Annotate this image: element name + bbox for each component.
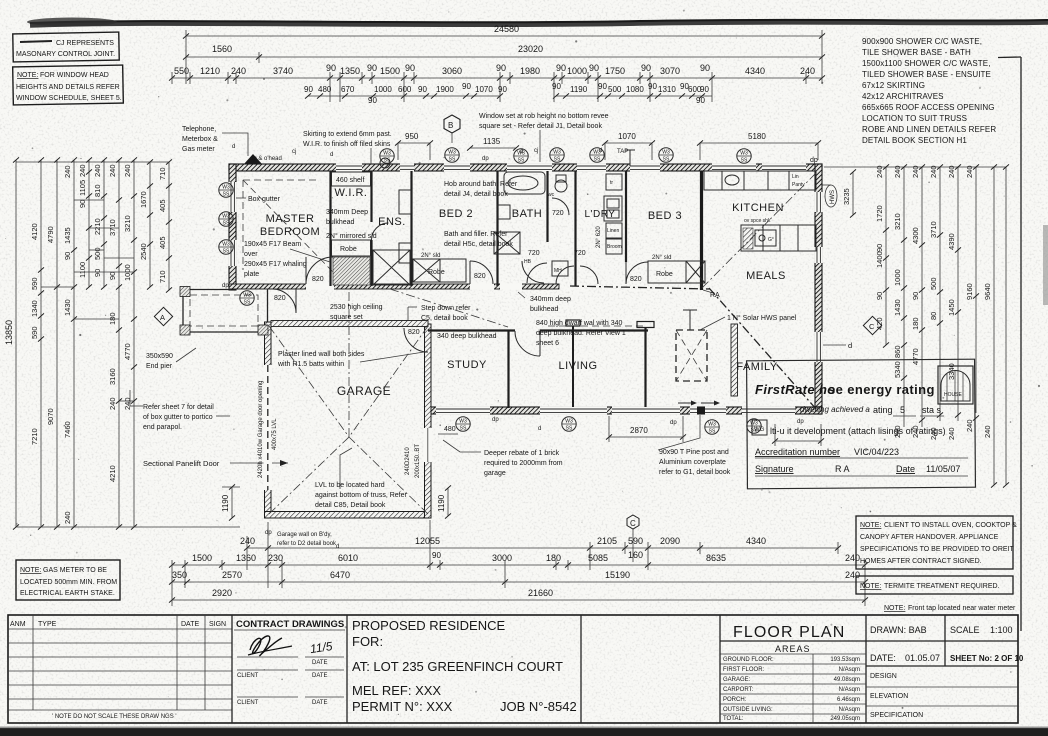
interior wall LDRY right xyxy=(625,171,627,262)
svg-text:480: 480 xyxy=(444,426,456,433)
svg-text:1000: 1000 xyxy=(893,269,902,286)
svg-text:Robe: Robe xyxy=(656,271,673,278)
svg-text:9070: 9070 xyxy=(46,408,55,425)
left chains bottom connector xyxy=(16,526,240,528)
svg-text:3740: 3740 xyxy=(273,66,293,76)
svg-text:21660: 21660 xyxy=(528,588,553,598)
svg-text:W.I.R.: W.I.R. xyxy=(335,187,368,199)
svg-text:240: 240 xyxy=(965,419,974,432)
svg-text:bulkhead: bulkhead xyxy=(530,306,559,313)
svg-text:1190: 1190 xyxy=(570,85,588,94)
window symbol porch xyxy=(240,291,254,306)
svg-text:AT: LOT 235 GREENFINCH COURT: AT: LOT 235 GREENFINCH COURT xyxy=(352,659,563,674)
svg-text:KITCHEN: KITCHEN xyxy=(732,202,784,214)
svg-text:Bath and filler. Refer: Bath and filler. Refer xyxy=(444,231,508,238)
pine post square xyxy=(697,407,705,415)
exterior wall right xyxy=(815,164,822,414)
svg-text:Step down refer: Step down refer xyxy=(421,305,471,312)
svg-text:end parapol.: end parapol. xyxy=(143,424,182,431)
svg-text:1:100: 1:100 xyxy=(990,625,1013,635)
svg-text:dp: dp xyxy=(810,157,818,164)
svg-text:2N° mirrored sld: 2N° mirrored sld xyxy=(326,232,377,240)
svg-text:STUDY: STUDY xyxy=(447,359,487,371)
svg-text:240: 240 xyxy=(947,427,956,440)
svg-text:4770: 4770 xyxy=(911,348,920,365)
right chain line 2 xyxy=(903,167,905,427)
node B hexagon xyxy=(444,115,460,133)
svg-text:90: 90 xyxy=(418,85,427,94)
svg-text:710: 710 xyxy=(158,167,167,180)
svg-text:240: 240 xyxy=(983,425,992,438)
svg-text:2920: 2920 xyxy=(212,588,232,598)
svg-text:HWS: HWS xyxy=(830,190,836,204)
svg-text:NOTE:: NOTE: xyxy=(860,522,881,529)
svg-text:860: 860 xyxy=(893,345,902,358)
svg-text:Box gutter: Box gutter xyxy=(248,196,281,203)
node C hexagon bottom xyxy=(627,515,639,529)
scanner streak right edge xyxy=(1043,225,1048,305)
door arc hall-garage xyxy=(404,328,428,352)
bed3 chute box xyxy=(686,261,705,283)
svg-text:1070: 1070 xyxy=(475,85,493,94)
svg-text:240: 240 xyxy=(108,397,117,410)
d leader right wall xyxy=(823,344,846,346)
right chain line 3 xyxy=(921,167,923,427)
svg-text:CONTRACT DRAWINGS: CONTRACT DRAWINGS xyxy=(236,619,344,630)
svg-text:6470: 6470 xyxy=(330,570,350,580)
ldry trough xyxy=(555,180,567,192)
svg-text:MASONARY CONTROL JOINT.: MASONARY CONTROL JOINT. xyxy=(16,51,115,58)
svg-text:Window set at rob height no bo: Window set at rob height no bottom revee xyxy=(479,113,609,120)
svg-text:DRAWN: BAB: DRAWN: BAB xyxy=(870,625,927,635)
svg-text:2N° sld: 2N° sld xyxy=(652,255,671,261)
svg-text:LVL to be located hard: LVL to be located hard xyxy=(315,482,385,489)
svg-text:240: 240 xyxy=(893,165,902,178)
svg-text:BATH: BATH xyxy=(512,208,543,220)
svg-text:8635: 8635 xyxy=(706,553,726,563)
svg-text:BED 3: BED 3 xyxy=(648,210,682,222)
left chain line 9 xyxy=(149,162,151,287)
svg-text:1310: 1310 xyxy=(658,85,676,94)
svg-text:DETAIL BOOK SECTION H1: DETAIL BOOK SECTION H1 xyxy=(862,136,967,145)
right chain line 5 xyxy=(957,167,959,421)
kitchen bench top xyxy=(704,171,816,190)
dim 1070 xyxy=(605,142,652,144)
blade wall living xyxy=(644,327,646,407)
svg-text:90: 90 xyxy=(432,551,441,560)
energy rating box xyxy=(747,359,976,489)
svg-text:Skirting to extend 6mm past.: Skirting to extend 6mm past. xyxy=(303,131,392,138)
svg-text:2420h x4010w Garage door openi: 2420h x4010w Garage door opening xyxy=(258,381,264,478)
floor plan block xyxy=(719,615,721,723)
svg-text:over: over xyxy=(244,251,258,258)
svg-text:wc: wc xyxy=(548,192,555,198)
svg-text:1500x1100 SHOWER C/C WASTE,: 1500x1100 SHOWER C/C WASTE, xyxy=(862,59,991,68)
svg-text:720: 720 xyxy=(552,210,564,217)
svg-text:FAMILY: FAMILY xyxy=(736,361,777,373)
svg-text:FIRST FLOOR:: FIRST FLOOR: xyxy=(723,667,765,673)
svg-text:GAS METER TO BE: GAS METER TO BE xyxy=(43,567,107,574)
bottom chain 4 xyxy=(172,599,865,601)
svg-text:CJ REPRESENTS: CJ REPRESENTS xyxy=(56,40,114,47)
svg-text:DATE: DATE xyxy=(312,700,328,706)
svg-text:RA: RA xyxy=(710,292,720,299)
svg-text:240: 240 xyxy=(108,164,117,177)
svg-text:67x12 SKIRTING: 67x12 SKIRTING xyxy=(862,81,925,90)
dim 1135 xyxy=(470,147,516,149)
right chain line 8 xyxy=(1005,167,1007,485)
svg-text:90: 90 xyxy=(326,63,336,73)
svg-text:BEDROOM: BEDROOM xyxy=(260,226,320,238)
svg-text:CARPORT:: CARPORT: xyxy=(723,687,754,693)
svg-text:1000: 1000 xyxy=(374,85,392,94)
svg-text:900x900 SHOWER C/C WASTE,: 900x900 SHOWER C/C WASTE, xyxy=(862,37,982,46)
svg-text:lti-u it development (attach: lti-u it development (attach lisings of … xyxy=(770,426,946,436)
svg-text:detail J4, detail book: detail J4, detail book xyxy=(444,191,508,198)
svg-text:1980: 1980 xyxy=(520,66,540,76)
dwarf wall family xyxy=(731,324,738,396)
right chain line 1 xyxy=(885,167,887,345)
svg-text:dp: dp xyxy=(265,530,272,536)
node C diamond right xyxy=(863,316,881,334)
left chain line 5 xyxy=(88,160,90,287)
dim 5180 xyxy=(700,142,818,144)
dim 3235 vertical xyxy=(852,172,854,215)
svg-text:Plaster lined wall both sides: Plaster lined wall both sides xyxy=(278,351,365,358)
svg-text:2N° sld: 2N° sld xyxy=(421,253,440,259)
svg-text:cj: cj xyxy=(534,148,538,154)
svg-text:C5, detail book: C5, detail book xyxy=(421,315,468,322)
svg-text:3160: 3160 xyxy=(108,368,117,385)
svg-text:CLIENT: CLIENT xyxy=(237,673,259,679)
svg-text:d: d xyxy=(232,144,235,150)
svg-text:Meterbox &: Meterbox & xyxy=(182,136,218,143)
svg-text:1100: 1100 xyxy=(78,262,87,278)
svg-text:SCALE: SCALE xyxy=(950,625,980,635)
interior wall ENS right xyxy=(410,171,412,286)
svg-text:BED 2: BED 2 xyxy=(439,208,473,220)
svg-text:refer to D2 detail book: refer to D2 detail book xyxy=(277,541,337,547)
svg-text:90: 90 xyxy=(93,269,102,277)
svg-text:90: 90 xyxy=(648,82,657,91)
svg-text:CLIENT: CLIENT xyxy=(237,700,259,706)
svg-text:4210: 4210 xyxy=(108,465,117,482)
svg-text:HEIGHTS AND DETAILS REFER: HEIGHTS AND DETAILS REFER xyxy=(16,84,120,91)
meter box triangle xyxy=(244,154,262,164)
svg-text:9640: 9640 xyxy=(983,283,992,300)
door arc study xyxy=(515,331,540,356)
house logo xyxy=(938,366,973,404)
svg-text:500: 500 xyxy=(929,277,938,290)
bed2 robe xyxy=(413,259,466,282)
svg-text:2105: 2105 xyxy=(597,536,617,546)
svg-text:3210: 3210 xyxy=(123,215,132,232)
bottom chain extension verticals xyxy=(171,560,173,606)
svg-text:with R1.5 batts within: with R1.5 batts within xyxy=(277,361,344,368)
svg-text:TYPE: TYPE xyxy=(38,621,57,628)
svg-text:1560: 1560 xyxy=(212,44,232,54)
svg-text:se energy rating: se energy rating xyxy=(828,382,935,397)
spec text block top right xyxy=(862,37,996,145)
svg-text:2870: 2870 xyxy=(630,426,648,435)
svg-text:240: 240 xyxy=(965,165,974,178)
svg-text:350x590: 350x590 xyxy=(146,353,173,360)
sliding arrows bottom wall xyxy=(678,402,695,404)
svg-text:2530 high ceiling: 2530 high ceiling xyxy=(330,304,383,311)
svg-text:80: 80 xyxy=(929,312,938,320)
svg-text:detail H5c, detail book: detail H5c, detail book xyxy=(444,241,513,248)
right chain line 6 xyxy=(975,167,977,413)
svg-text:TILE SHOWER BASE - BATH: TILE SHOWER BASE - BATH xyxy=(862,48,971,57)
svg-text:340 deep bulkhead: 340 deep bulkhead xyxy=(437,333,497,340)
svg-text:Aluminium coverplate: Aluminium coverplate xyxy=(659,459,726,466)
corridor roof valley dd xyxy=(390,289,508,327)
study top wall xyxy=(428,329,515,331)
svg-text:4390: 4390 xyxy=(947,233,956,250)
svg-text:950: 950 xyxy=(405,132,419,141)
svg-text:2210: 2210 xyxy=(93,218,102,235)
bottom chain 1 xyxy=(247,547,838,549)
svg-text:600: 600 xyxy=(398,85,412,94)
svg-text:CLIENT TO INSTALL OVEN, COOKTO: CLIENT TO INSTALL OVEN, COOKTOP & xyxy=(884,522,1017,529)
svg-text:garage: garage xyxy=(484,470,506,477)
interior wall WIR left xyxy=(329,171,331,286)
svg-text:DATE: DATE xyxy=(181,621,199,628)
svg-text:3210: 3210 xyxy=(893,213,902,230)
svg-text:240: 240 xyxy=(63,511,72,524)
mid wall door gaps xyxy=(306,283,522,289)
svg-text:d: d xyxy=(330,152,333,158)
svg-text:dp: dp xyxy=(482,156,489,162)
svg-text:240: 240 xyxy=(800,66,815,76)
interior wall BED3 right xyxy=(700,171,703,290)
svg-text:90: 90 xyxy=(78,200,87,208)
svg-text:42x12 ARCHITRAVES: 42x12 ARCHITRAVES xyxy=(862,92,944,101)
svg-text:W.I.R. to finish off filed ski: W.I.R. to finish off filed skins xyxy=(303,141,391,148)
svg-text:840 high dwarf wal with 340: 840 high dwarf wal with 340 xyxy=(536,320,622,327)
svg-text:180: 180 xyxy=(546,553,561,563)
svg-text:JOB N°-8542: JOB N°-8542 xyxy=(500,699,577,714)
svg-text:230: 230 xyxy=(268,553,283,563)
svg-text:R A: R A xyxy=(835,464,850,474)
scan smudge blob left xyxy=(27,18,117,27)
svg-text:5180: 5180 xyxy=(748,132,766,141)
svg-text:720: 720 xyxy=(528,250,540,257)
svg-text:HOUSE: HOUSE xyxy=(944,392,962,398)
svg-text:7210: 7210 xyxy=(30,428,39,445)
svg-text:LOCATION TO SUIT TRUSS: LOCATION TO SUIT TRUSS xyxy=(862,114,967,123)
svg-text:1190: 1190 xyxy=(221,494,230,512)
svg-text:249.05sqm: 249.05sqm xyxy=(830,716,860,722)
svg-text:SPECIFICATIONS TO BE PROVIDED: SPECIFICATIONS TO BE PROVIDED TO OREIT xyxy=(860,546,1014,553)
svg-text:3070: 3070 xyxy=(660,66,680,76)
svg-text:820: 820 xyxy=(474,273,486,280)
left chains top connector xyxy=(16,161,169,163)
svg-text:90: 90 xyxy=(63,252,72,260)
door arc hall-bath xyxy=(552,198,569,215)
living post xyxy=(572,326,574,407)
svg-text:CANOPY AFTER HANDOVER. APPLIA: CANOPY AFTER HANDOVER. APPLIANCE xyxy=(860,534,999,541)
svg-text:against bottom of truss, Refer: against bottom of truss, Refer xyxy=(315,492,407,499)
title block outer frame xyxy=(8,615,1018,723)
svg-text:90: 90 xyxy=(875,244,884,252)
svg-text:90: 90 xyxy=(498,85,507,94)
svg-text:plate: plate xyxy=(244,271,259,278)
svg-text:G°: G° xyxy=(768,237,774,243)
left chain line 3 xyxy=(56,160,58,527)
window openings left wall xyxy=(228,182,236,266)
svg-text:820: 820 xyxy=(312,276,324,283)
solar panel dashed box xyxy=(676,330,707,381)
svg-text:d: d xyxy=(599,148,602,154)
svg-text:4120: 4120 xyxy=(30,223,39,240)
multi unit line xyxy=(752,420,767,435)
svg-text:sta s: sta s xyxy=(922,405,942,415)
porch walls xyxy=(183,289,231,291)
svg-text:square set: square set xyxy=(330,314,363,321)
revision table xyxy=(8,615,232,710)
window symbols left wall xyxy=(219,183,233,198)
svg-text:Broom: Broom xyxy=(607,244,622,250)
door arcs ldry xyxy=(556,266,574,284)
HWS tag xyxy=(825,185,837,207)
bottom chain 2 xyxy=(172,564,865,566)
node A diamond xyxy=(154,307,172,325)
window symbols bottom wall xyxy=(456,417,470,432)
top dim chain 3 xyxy=(172,77,822,79)
svg-text:240: 240 xyxy=(240,536,255,546)
svg-text:160: 160 xyxy=(628,550,643,560)
svg-text:720: 720 xyxy=(574,250,586,257)
right chain line 4 xyxy=(939,167,941,421)
svg-text:4340: 4340 xyxy=(745,66,765,76)
svg-text:dp: dp xyxy=(492,417,499,423)
left chain line 4 xyxy=(73,160,75,527)
svg-text:90: 90 xyxy=(641,63,651,73)
svg-text:B: B xyxy=(448,121,453,130)
interior wall WIR/ENS xyxy=(370,171,372,222)
svg-text:193.53sqm: 193.53sqm xyxy=(830,657,860,663)
svg-text:refer to G1, detail book: refer to G1, detail book xyxy=(659,469,731,476)
svg-text:ELEVATION: ELEVATION xyxy=(870,693,908,700)
WIR shelf xyxy=(332,172,371,186)
svg-text:ENS.: ENS. xyxy=(378,216,406,228)
ens shower xyxy=(373,250,410,285)
svg-text:820: 820 xyxy=(408,329,420,336)
svg-text:sheet 6: sheet 6 xyxy=(536,340,559,347)
svg-text:2540: 2540 xyxy=(139,243,148,260)
kitchen island xyxy=(741,225,816,251)
svg-text:670: 670 xyxy=(341,85,355,94)
window openings top wall xyxy=(336,163,806,171)
garage right wall xyxy=(425,324,432,518)
svg-text:500: 500 xyxy=(608,85,622,94)
svg-text:Gas meter: Gas meter xyxy=(182,146,215,153)
window symbols top wall xyxy=(380,149,394,164)
note box: gas meter xyxy=(16,560,120,600)
svg-text:1210: 1210 xyxy=(200,66,220,76)
left chain line 6 xyxy=(103,160,105,287)
blank cell divider xyxy=(580,615,582,723)
bed3 robe xyxy=(648,261,686,283)
svg-text:1070: 1070 xyxy=(618,132,636,141)
svg-text:HOMES AFTER CONTRACT SIGNED.: HOMES AFTER CONTRACT SIGNED. xyxy=(860,558,982,565)
svg-text:FOR:: FOR: xyxy=(352,634,383,649)
interior wall BATH right xyxy=(546,171,548,242)
svg-text:4300: 4300 xyxy=(911,227,920,244)
svg-text:190x45 F17 Beam: 190x45 F17 Beam xyxy=(244,241,301,248)
svg-text:7460: 7460 xyxy=(63,421,72,438)
svg-text:Deeper rebate of 1 brick: Deeper rebate of 1 brick xyxy=(484,450,560,457)
bottom chain 3 xyxy=(172,581,865,583)
svg-text:590: 590 xyxy=(30,277,39,290)
svg-text:OUTSIDE LIVING:: OUTSIDE LIVING: xyxy=(723,707,773,713)
svg-text:90: 90 xyxy=(875,292,884,300)
tiled hatch square xyxy=(333,257,370,285)
svg-text:240: 240 xyxy=(123,164,132,177)
svg-text:90: 90 xyxy=(552,82,561,91)
svg-text:Lin: Lin xyxy=(792,174,799,180)
svg-text:TOTAL:: TOTAL: xyxy=(723,716,744,722)
svg-text:5085: 5085 xyxy=(588,553,608,563)
top dim chain 1560/23020 xyxy=(186,56,822,58)
svg-text:240: 240 xyxy=(231,66,246,76)
svg-text:460 shelf: 460 shelf xyxy=(336,177,364,184)
svg-text:90: 90 xyxy=(405,63,415,73)
svg-text:90: 90 xyxy=(598,82,607,91)
bulkhead dash-dot line xyxy=(570,286,710,289)
svg-text:dp: dp xyxy=(797,419,804,425)
svg-text:GROUND FLOOR:: GROUND FLOOR: xyxy=(723,657,774,663)
bath tub xyxy=(504,172,545,194)
svg-text:820: 820 xyxy=(630,276,642,283)
left chain line 13850 xyxy=(15,160,17,527)
svg-text:90: 90 xyxy=(700,85,709,94)
svg-text:dwelling achieved a: dwelling achieved a xyxy=(800,405,870,414)
svg-text:SHEET No: 2 OF 10: SHEET No: 2 OF 10 xyxy=(950,654,1024,663)
svg-text:90x90 T Pine post and: 90x90 T Pine post and xyxy=(659,449,729,456)
svg-text:1400: 1400 xyxy=(875,251,884,268)
svg-text:square set - Refer detail J1,: square set - Refer detail J1, Detail boo… xyxy=(479,123,602,130)
svg-text:d: d xyxy=(520,149,523,155)
svg-text:550: 550 xyxy=(174,66,189,76)
dim 1190 right xyxy=(447,488,449,516)
svg-text:405: 405 xyxy=(158,236,167,249)
svg-text:90: 90 xyxy=(368,96,377,105)
svg-text:1720: 1720 xyxy=(875,205,884,222)
note box termite xyxy=(856,576,1013,594)
svg-text:Front tap located near water m: Front tap located near water meter xyxy=(908,605,1016,612)
svg-text:13850: 13850 xyxy=(4,320,14,345)
svg-text:240: 240 xyxy=(123,397,132,410)
left chain line 7 xyxy=(118,160,120,527)
svg-text:Robe: Robe xyxy=(340,246,357,253)
svg-text:1500: 1500 xyxy=(192,553,212,563)
svg-text:LOCATED 500mm MIN. FROM: LOCATED 500mm MIN. FROM xyxy=(20,579,117,586)
svg-text:1350: 1350 xyxy=(340,66,360,76)
svg-text:ANM: ANM xyxy=(10,621,26,628)
svg-text:240: 240 xyxy=(911,165,920,178)
exterior wall top xyxy=(229,164,822,171)
family window dim xyxy=(775,440,821,442)
svg-text:ating: ating xyxy=(873,405,893,415)
garage door opening xyxy=(264,365,273,490)
svg-text:C: C xyxy=(630,519,636,528)
svg-text:d: d xyxy=(336,544,339,550)
svg-text:4340: 4340 xyxy=(746,536,766,546)
svg-text:90: 90 xyxy=(556,63,566,73)
note box client oven xyxy=(856,516,1013,569)
